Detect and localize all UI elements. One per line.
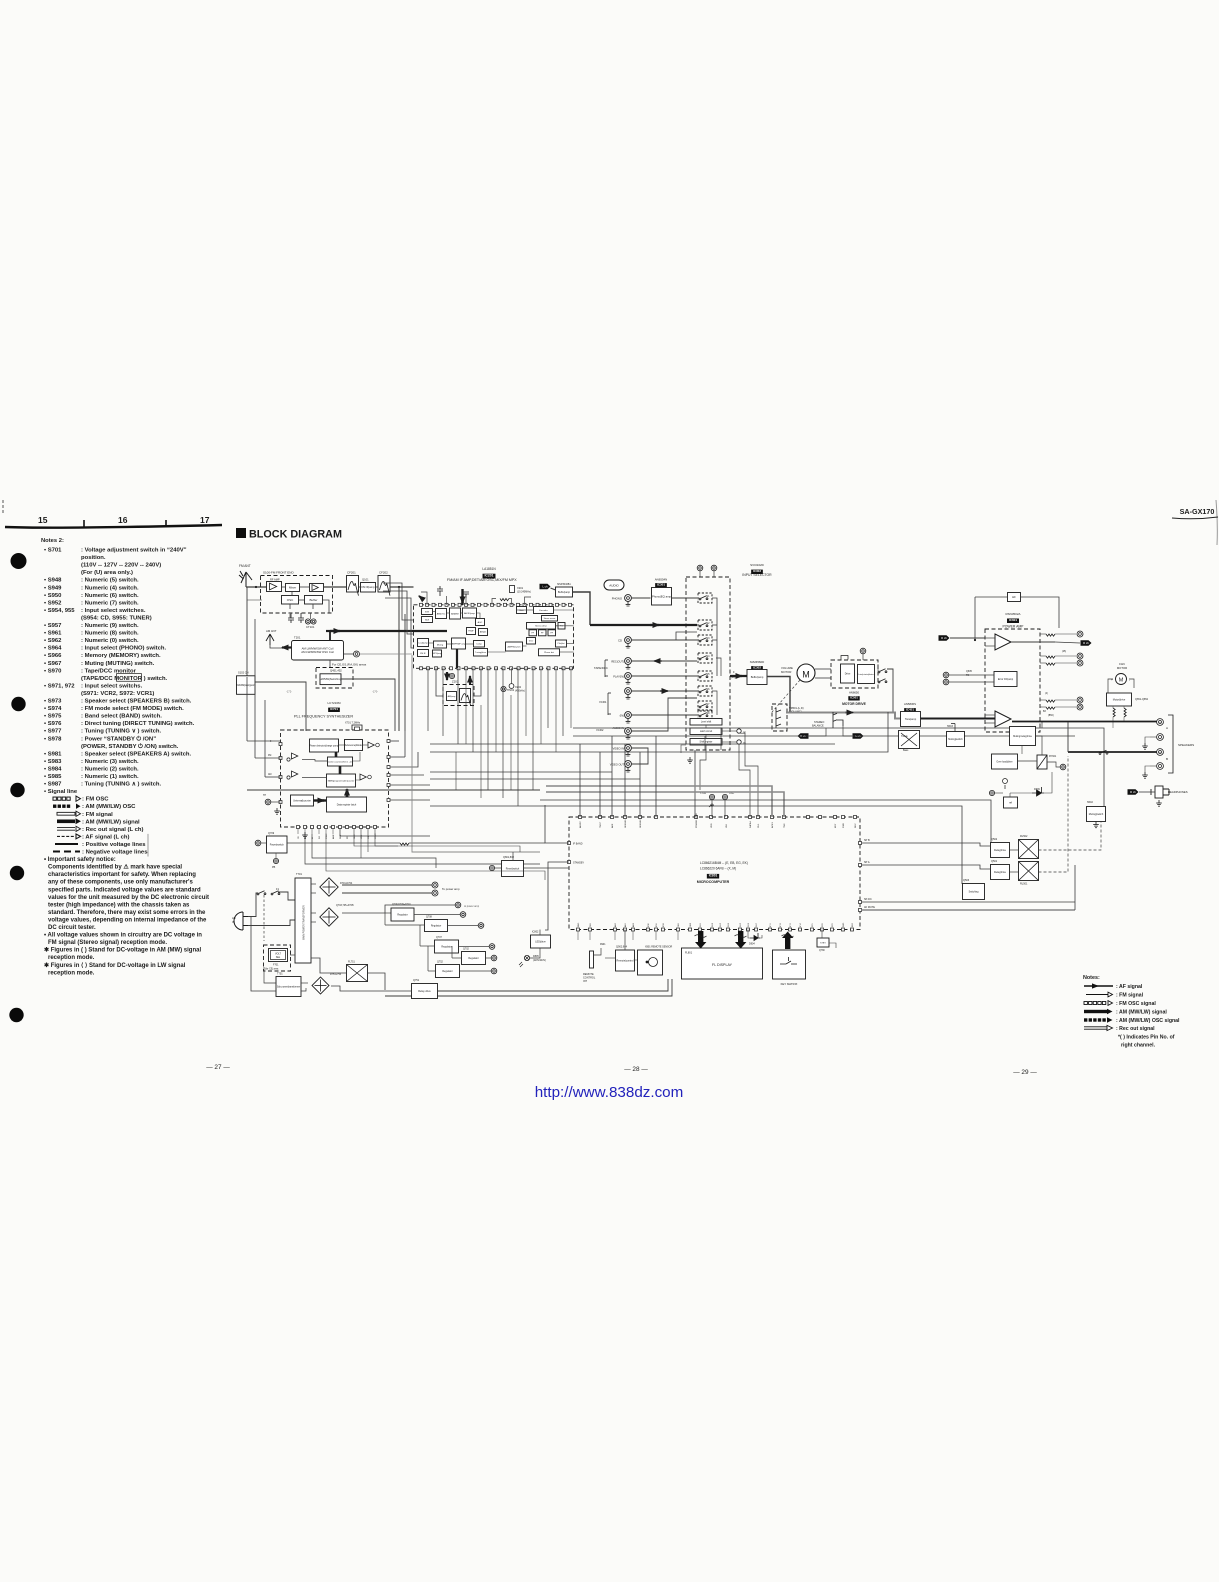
control bus y736 xyxy=(573,735,1075,737)
svg-text:Level shift: Level shift xyxy=(701,721,712,724)
legend Rec out signal xyxy=(1084,1025,1113,1030)
wire play in xyxy=(631,675,697,677)
legend AM OSC signal xyxy=(1084,1017,1113,1023)
svg-text:: Input select switches.: : Input select switches. xyxy=(81,608,146,614)
svg-text:R ch: R ch xyxy=(941,636,947,640)
control bus y728 xyxy=(573,728,1104,806)
RL501 relay xyxy=(1019,862,1039,881)
svg-text:Q605: Q605 xyxy=(966,670,973,673)
svg-text:• S950: • S950 xyxy=(44,593,62,599)
selector to micro wires xyxy=(694,750,696,817)
micro top pins xyxy=(579,816,857,819)
svg-text:DO: DO xyxy=(319,836,321,839)
Q503 switching xyxy=(963,884,985,900)
svg-text:(B50): (B50) xyxy=(1048,715,1054,717)
IC201 bottom drop wires xyxy=(427,668,429,731)
IF count wire xyxy=(547,668,549,728)
svg-text:STEREO: STEREO xyxy=(814,721,824,724)
svg-text:tester (high impedance) with t: tester (high impedance) with the chassis… xyxy=(48,902,190,908)
direction detect block xyxy=(858,665,875,684)
svg-text:VCR1: VCR1 xyxy=(599,700,607,704)
svg-text:PLAY(IN): PLAY(IN) xyxy=(613,675,624,679)
svg-text:Phono|EQ amp: Phono|EQ amp xyxy=(652,594,672,598)
headphones jack xyxy=(1151,786,1169,798)
test point wire xyxy=(255,682,306,731)
wire flag to buffer xyxy=(551,588,556,590)
svg-text:D904: D904 xyxy=(749,943,755,946)
svg-text:Switching: Switching xyxy=(969,890,980,893)
svg-text:: Power “STANDBY ⏻ /ON”: : Power “STANDBY ⏻ /ON” xyxy=(81,735,156,742)
svg-text:SP-DC: SP-DC xyxy=(864,898,872,901)
motor drive enclosure xyxy=(831,660,878,688)
svg-text:D901: D901 xyxy=(600,944,606,946)
switching out wire xyxy=(341,679,395,731)
svg-text:*( ) Indicates Pin No. of: *( ) Indicates Pin No. of xyxy=(1118,1035,1175,1041)
svg-text:: Numeric (0) switch.: : Numeric (0) switch. xyxy=(81,638,139,644)
micro supply pins xyxy=(709,794,714,799)
svg-text:RSN3502A: RSN3502A xyxy=(1005,612,1020,616)
ref box xyxy=(1004,797,1018,808)
selector switch S4 xyxy=(698,653,712,663)
motor drive block xyxy=(841,664,855,683)
CD jack xyxy=(625,637,632,648)
AM input amp xyxy=(292,771,298,777)
AM coil unit T201 xyxy=(292,641,344,661)
selector switch S7 xyxy=(698,701,712,711)
svg-text:Regulator: Regulator xyxy=(442,970,453,973)
wire Q501 RL501 xyxy=(1010,871,1019,873)
svg-text:SA-GX170: SA-GX170 xyxy=(1180,507,1215,516)
svg-text:RL501: RL501 xyxy=(1020,883,1028,886)
svg-text:(POWER, STANDBY ⏻ /ON) switch.: (POWER, STANDBY ⏻ /ON) switch. xyxy=(81,743,179,750)
svg-text:+: + xyxy=(1159,751,1161,755)
svg-text:IC302: IC302 xyxy=(753,666,761,670)
svg-text:to power amp: to power amp xyxy=(464,905,480,908)
IC201 top caps and grounds xyxy=(437,586,469,598)
microcomputer enclosure xyxy=(569,817,860,930)
svg-text:Remote|control: Remote|control xyxy=(617,959,634,962)
svg-text:• S961: • S961 xyxy=(44,631,62,637)
top ruler scale xyxy=(5,525,222,528)
svg-text:S503: S503 xyxy=(947,725,953,728)
key matrix xyxy=(773,950,806,979)
control bus y779 xyxy=(430,778,640,780)
svg-text:CT101: CT101 xyxy=(306,625,315,629)
svg-text:B: B xyxy=(1166,757,1168,761)
audio bus to tone amp xyxy=(786,713,901,719)
svg-text:SEL: SEL xyxy=(276,956,281,959)
MONITOR boxed word xyxy=(117,674,142,682)
svg-text:• S984: • S984 xyxy=(44,766,62,772)
svg-text:: Numeric (5) switch.: : Numeric (5) switch. xyxy=(81,578,139,584)
svg-text:Buff: Buff xyxy=(425,619,429,621)
Q501 relay drive xyxy=(991,865,1010,880)
supply rails xyxy=(342,905,455,913)
svg-text:: Numeric (9) switch.: : Numeric (9) switch. xyxy=(81,623,139,629)
wire EQ to selector S1 xyxy=(672,597,698,599)
video loop wire xyxy=(631,748,648,764)
buffer out wire xyxy=(767,677,790,713)
power LED xyxy=(524,955,529,960)
svg-text:Q709: Q709 xyxy=(268,832,275,835)
ref amp xyxy=(368,742,374,748)
svg-text:• S981: • S981 xyxy=(44,751,62,757)
svg-text:• S987: • S987 xyxy=(44,782,62,788)
svg-text:TP202: TP202 xyxy=(507,689,515,692)
wire CD to S3 xyxy=(631,639,697,641)
svg-text:Q503: Q503 xyxy=(963,879,970,882)
RL502 out dashed xyxy=(1039,822,1102,850)
svg-text:(25): (25) xyxy=(1062,651,1066,653)
svg-text:REMOTE: REMOTE xyxy=(583,973,594,976)
error amp out pins xyxy=(1046,700,1055,702)
AM signal arrow to coils xyxy=(282,646,294,648)
svg-text:— 29 —: — 29 — xyxy=(1013,1069,1037,1076)
selector switch S5 xyxy=(698,671,712,681)
IC201 AM IF amp xyxy=(463,608,477,618)
svg-text:CF201: CF201 xyxy=(347,571,356,575)
svg-text:T201: T201 xyxy=(294,636,301,640)
IC201 AMFM IF amp xyxy=(452,638,467,649)
svg-text:(220V/240V): (220V/240V) xyxy=(533,960,546,962)
svg-text:Q708: Q708 xyxy=(426,916,433,919)
bus drop wires to microcomputer xyxy=(579,744,581,817)
standby timer part xyxy=(817,938,829,947)
wire vcr2 audio xyxy=(631,698,697,731)
gray audio bus y790 xyxy=(247,789,540,791)
svg-text:STANDBY: STANDBY xyxy=(573,862,585,865)
svg-text:specified parts. Indicated v: specified parts. Indicated voltage value… xyxy=(48,887,201,893)
svg-text:For CE,GS,(P,A,GK) areas: For CE,GS,(P,A,GK) areas xyxy=(332,663,367,667)
svg-text:AM|det: AM|det xyxy=(480,631,487,634)
buffer amp IC211 xyxy=(556,587,573,597)
speakers bracket xyxy=(1168,715,1173,773)
svg-text:L ch: L ch xyxy=(542,585,548,589)
D609 diode xyxy=(1032,787,1044,796)
IC201 stereo sensor xyxy=(542,616,558,622)
IC201 PG xyxy=(558,623,565,630)
svg-text:: Numeric (7) switch.: : Numeric (7) switch. xyxy=(81,600,139,606)
IC201 MPX xyxy=(433,650,443,657)
svg-text:ACK1: ACK1 xyxy=(771,822,774,828)
IC201 top pins xyxy=(420,603,572,606)
svg-text:VDD: VDD xyxy=(711,823,713,828)
relay drive Q751 xyxy=(412,984,438,999)
svg-text:Relay|drive: Relay|drive xyxy=(994,849,1007,852)
legend bracket line xyxy=(147,834,149,857)
voltage selector xyxy=(269,949,288,962)
svg-text:Lead|amp: Lead|amp xyxy=(418,642,428,644)
svg-text:: Voltage adjustment switch in: : Voltage adjustment switch in “240V” xyxy=(81,548,187,554)
svg-text:Over load|drive: Over load|drive xyxy=(996,760,1013,763)
svg-text:FM|IF: FM|IF xyxy=(468,631,474,633)
selector switch S1 xyxy=(698,593,712,603)
svg-text:X701 7.2MHz: X701 7.2MHz xyxy=(345,722,361,725)
svg-text:: AF signal: : AF signal xyxy=(1116,984,1143,990)
R out resistor xyxy=(1046,634,1055,636)
svg-text:(For (U) area only.): (For (U) area only.) xyxy=(81,570,133,576)
svg-text:Regulator: Regulator xyxy=(441,945,452,948)
control bus y772 xyxy=(430,771,612,773)
serial control pins xyxy=(737,729,741,733)
svg-text:• S952: • S952 xyxy=(44,600,62,606)
Z201 wires xyxy=(436,668,443,696)
svg-text:MOTOR: MOTOR xyxy=(781,670,791,674)
svg-text:CONTROL: CONTROL xyxy=(583,977,596,980)
muting ref pins xyxy=(989,790,994,795)
svg-text:Data register latch: Data register latch xyxy=(337,803,357,806)
svg-text:Q502: Q502 xyxy=(991,838,998,841)
svg-text:SP A: SP A xyxy=(864,861,870,864)
pll internal amp2 xyxy=(360,774,366,780)
svg-text:: Numeric (2) switch.: : Numeric (2) switch. xyxy=(81,766,139,772)
wire vcr1 out xyxy=(631,690,697,692)
micro left wires xyxy=(545,805,569,843)
RL501 out dashed xyxy=(1039,756,1069,872)
svg-text:DATA1: DATA1 xyxy=(749,820,752,828)
svg-text:R ch: R ch xyxy=(1130,790,1136,794)
svg-text:• All voltage values shown in: • All voltage values shown in circuitry … xyxy=(44,933,202,939)
svg-text:FM signal (Stereo signal) rece: FM signal (Stereo signal) reception mode… xyxy=(48,940,167,946)
svg-text:RY601: RY601 xyxy=(1049,755,1057,758)
svg-text:AN6650: AN6650 xyxy=(849,691,860,695)
svg-text:AF MUTE: AF MUTE xyxy=(864,906,875,909)
relay pin xyxy=(1060,764,1066,770)
wire Q502 RL502 xyxy=(1010,849,1019,851)
svg-text:• S701: • S701 xyxy=(44,548,62,554)
svg-text:RF AMP: RF AMP xyxy=(270,578,280,582)
CF201 ceramic filter xyxy=(347,576,359,596)
svg-text:Bass: Bass xyxy=(903,749,909,752)
LW/MW switching xyxy=(320,674,342,685)
motor drive out switches xyxy=(878,669,887,673)
AUDIO rounded label xyxy=(604,580,624,590)
svg-text:Phase detector|charge pump: Phase detector|charge pump xyxy=(309,744,339,747)
svg-text:PB: PB xyxy=(272,866,276,869)
svg-text:INT: INT xyxy=(583,980,588,983)
svg-text:A: A xyxy=(1166,726,1168,730)
VCO test pin xyxy=(501,686,506,691)
volume motor xyxy=(797,664,815,682)
svg-text:VLK: VLK xyxy=(726,823,728,828)
volume pot enclosure xyxy=(772,704,787,731)
left gray rail xyxy=(412,655,540,852)
micro right lower wires xyxy=(862,901,1076,903)
vertical link selector xyxy=(720,728,722,750)
selector switch S2 xyxy=(698,620,712,630)
IC201 AM MIX xyxy=(450,608,461,619)
speaker bus B xyxy=(1068,751,1157,753)
svg-text:PHONO: PHONO xyxy=(612,597,623,601)
display bus arrow 2 xyxy=(735,931,746,949)
svg-text:SPEAKERS: SPEAKERS xyxy=(1178,743,1194,747)
muting relay drive xyxy=(1010,727,1036,746)
relay control y800b xyxy=(540,800,991,843)
Z201 AM filter enclosure xyxy=(443,685,474,706)
key diode xyxy=(709,803,714,807)
left margin registration mark xyxy=(2,500,4,513)
relay coil xyxy=(1037,755,1047,769)
motor drive supply pin xyxy=(860,648,866,654)
svg-text:FM IF: FM IF xyxy=(420,653,426,655)
remote control amp xyxy=(616,950,635,971)
phono EQ amp xyxy=(652,588,672,606)
left rail from antenna area xyxy=(246,587,248,677)
svg-text:To power amp: To power amp xyxy=(442,887,460,891)
svg-text:Stereo drive: Stereo drive xyxy=(535,625,548,628)
section title BLOCK DIAGRAM xyxy=(236,528,246,538)
svg-text:Q501: Q501 xyxy=(991,860,998,863)
svg-text:+: + xyxy=(1111,678,1113,682)
svg-text:F701: F701 xyxy=(273,964,279,967)
svg-text:• S957: • S957 xyxy=(44,623,62,629)
fan motor drive xyxy=(1107,693,1132,706)
front end internal wires xyxy=(282,586,286,588)
power amp supply pins xyxy=(432,882,438,888)
micro bottom stub wires xyxy=(577,931,579,940)
data register latch xyxy=(327,797,367,812)
Q709 power switch xyxy=(267,836,288,853)
reference divider xyxy=(345,740,363,751)
IC201 AMFM switch xyxy=(506,642,523,651)
tone controls xyxy=(899,731,920,749)
svg-text:Notes 2:: Notes 2: xyxy=(41,538,64,544)
S502 ground xyxy=(1093,822,1099,828)
AM OSC feed arrow xyxy=(419,596,424,600)
svg-text:FM ANT: FM ANT xyxy=(239,564,251,568)
mixer xyxy=(286,584,300,592)
svg-text:FM/AM IF AMP,DET/AM OSC,MIX/FM: FM/AM IF AMP,DET/AM OSC,MIX/FM MPX xyxy=(447,578,517,582)
IC201 AM det xyxy=(479,629,488,636)
svg-text:Muting|switch: Muting|switch xyxy=(948,738,963,741)
svg-text:R ch: R ch xyxy=(1083,641,1089,645)
svg-text:Reset|switch: Reset|switch xyxy=(506,867,520,870)
varactor trimmers below front end xyxy=(288,613,304,623)
svg-text:HF: HF xyxy=(1012,595,1016,599)
svg-text:D805: D805 xyxy=(533,955,539,958)
svg-text:TP: TP xyxy=(263,794,266,797)
phase detector xyxy=(309,739,339,752)
svg-text:(for CE) area: (for CE) area xyxy=(265,968,279,971)
svg-text:values for the unit measured b: values for the unit measured by the DC e… xyxy=(48,895,209,901)
svg-text:+: + xyxy=(1159,721,1161,725)
svg-text:Universal|counter: Universal|counter xyxy=(293,799,311,802)
PLL bottom stubs xyxy=(297,829,299,835)
selector switch S3 xyxy=(698,635,712,645)
svg-text:CD: CD xyxy=(618,639,622,643)
svg-text:STBY: STBY xyxy=(820,942,826,944)
svg-text:FM IF|amp: FM IF|amp xyxy=(362,585,375,589)
LED wires xyxy=(530,948,540,958)
svg-text:LC866216B4M -- (E, EB, EG, EK): LC866216B4M -- (E, EB, EG, EK) xyxy=(700,861,748,865)
micro bottom pins xyxy=(577,928,854,931)
svg-text:position.: position. xyxy=(81,555,106,561)
svg-text:• S964: • S964 xyxy=(44,646,62,652)
svg-text:• S975: • S975 xyxy=(44,714,62,720)
punch hole 5 xyxy=(9,1008,23,1022)
R output wire xyxy=(1011,641,1055,643)
bridge rectifier D705-708 xyxy=(320,908,338,926)
VCR2 video in jack xyxy=(625,745,632,756)
IC201 lead amp xyxy=(418,639,429,647)
svg-text:TO: TO xyxy=(966,674,969,677)
speaker terminals A xyxy=(1157,719,1164,726)
svg-text:MSP3040B1: MSP3040B1 xyxy=(557,583,571,586)
line filter xyxy=(347,965,368,982)
svg-text:LA1851N: LA1851N xyxy=(482,567,496,571)
svg-text:• S983: • S983 xyxy=(44,759,62,765)
LW/MW switching unit enclosure xyxy=(316,668,353,689)
svg-text:AM IF|amp: AM IF|amp xyxy=(464,612,475,615)
VCR2 video out jack xyxy=(625,761,632,772)
svg-text:• S948: • S948 xyxy=(44,578,62,584)
svg-text:: AM (MW/LW) OSC signal: : AM (MW/LW) OSC signal xyxy=(1116,1018,1180,1024)
svg-text:IC601: IC601 xyxy=(1009,618,1018,622)
PLL input wires xyxy=(247,740,281,742)
svg-text:15: 15 xyxy=(38,515,48,525)
svg-text:: Memory (MEMORY) switch.: : Memory (MEMORY) switch. xyxy=(81,653,161,659)
AM antenna xyxy=(266,634,274,645)
error DC amp xyxy=(994,672,1017,687)
main counter xyxy=(327,774,356,787)
FM AM test point box xyxy=(236,676,256,695)
Z201 AM amp xyxy=(447,692,457,701)
L input wires xyxy=(985,714,995,716)
svg-text:Comp: Comp xyxy=(476,644,482,646)
PLL right pins xyxy=(387,740,390,802)
svg-text:reception mode.: reception mode. xyxy=(48,970,95,976)
IC201 FF2 xyxy=(539,630,547,636)
svg-text:VR501-(L,D): VR501-(L,D) xyxy=(789,706,804,710)
svg-text:: Input select (PHONO) switch.: : Input select (PHONO) switch. xyxy=(81,646,166,652)
svg-text:• S954, 955: • S954, 955 xyxy=(44,608,75,614)
svg-text:S102 CH: S102 CH xyxy=(238,671,249,675)
svg-text:Shift register: Shift register xyxy=(700,741,713,744)
svg-text:T701: T701 xyxy=(296,872,302,876)
fan wires xyxy=(1108,679,1113,693)
svg-text:VCR2: VCR2 xyxy=(596,728,604,732)
bridge out to power amp xyxy=(342,884,432,886)
punch hole 1 xyxy=(11,553,27,569)
svg-text:AM|OSC: AM|OSC xyxy=(437,612,446,615)
svg-text:Relay|drive: Relay|drive xyxy=(994,871,1007,874)
svg-text:Sub power|transformer: Sub power|transformer xyxy=(277,985,301,988)
remote control connector xyxy=(590,951,594,968)
IC201 top components xyxy=(500,599,509,601)
svg-text:Q706,D709+D710: Q706,D709+D710 xyxy=(392,904,411,906)
PLL left ground xyxy=(274,808,280,814)
VCR1 in jack xyxy=(625,712,632,723)
speaker ground stubs xyxy=(1145,737,1150,743)
IC201 stereo drive xyxy=(527,623,556,630)
remote wires xyxy=(594,948,601,955)
voltage selector enclosure xyxy=(264,945,291,971)
svg-text:Mixer: Mixer xyxy=(289,586,296,590)
svg-text:: FM OSC signal: : FM OSC signal xyxy=(1116,1001,1156,1007)
wire phono to EQ xyxy=(631,597,650,599)
svg-text:FL751: FL751 xyxy=(348,961,355,964)
svg-text:• S976: • S976 xyxy=(44,721,62,727)
svg-text:Q780: Q780 xyxy=(819,950,825,952)
display bus arrow 1 xyxy=(695,931,706,949)
svg-text:• S966: • S966 xyxy=(44,653,62,659)
svg-text:— 27 —: — 27 — xyxy=(206,1064,230,1071)
svg-text:(450kHz): (450kHz) xyxy=(515,689,525,692)
PLL bottom comb xyxy=(347,829,540,853)
punch hole 4 xyxy=(10,866,24,880)
RL502 relay xyxy=(1019,840,1039,859)
svg-text:MAIN|programmable|counter: MAIN|programmable|counter xyxy=(328,779,355,782)
